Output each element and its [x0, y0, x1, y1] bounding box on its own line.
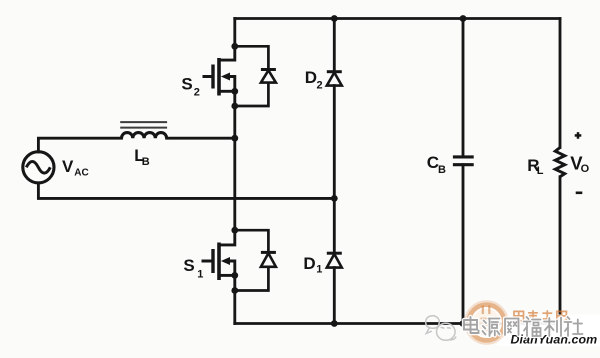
svg-text:O: O — [581, 163, 590, 175]
watermark face icon — [426, 316, 456, 341]
node: bridge midpoint (inductor connection) — [231, 135, 238, 142]
char li — [544, 318, 561, 337]
diode D1 — [327, 253, 342, 267]
watermark white backdrop — [468, 304, 600, 347]
svg-text:S: S — [183, 256, 194, 275]
AC source VAC — [23, 152, 54, 183]
body diode of S1 — [235, 230, 276, 290]
label S2 — [181, 74, 200, 98]
label D2 — [305, 68, 323, 91]
label LB — [134, 147, 150, 168]
node: D-leg top bus junction — [331, 15, 338, 22]
wire: R-leg bottom — [559, 177, 562, 324]
transistor S1 — [202, 230, 235, 290]
label output minus — [576, 192, 583, 195]
label output plus — [575, 132, 582, 139]
svg-text:D: D — [303, 254, 315, 273]
node: S2 loop bottom junction — [231, 103, 238, 110]
wire: R-leg top — [559, 19, 562, 148]
svg-text:2: 2 — [317, 80, 323, 92]
watermark orange ring logo — [465, 301, 507, 343]
transistor S1 body arrow — [221, 257, 230, 265]
inductor LB — [120, 122, 167, 138]
svg-text:1: 1 — [197, 269, 203, 281]
watermark text dian yuan wang fu li she — [464, 317, 583, 336]
wire: bottom bus — [235, 322, 560, 325]
svg-text:AC: AC — [74, 168, 88, 179]
wire: D-leg middle (D2 to D1) — [333, 86, 336, 254]
node: S2 source junction — [231, 88, 238, 95]
node: D-leg bottom bus junction — [331, 320, 338, 327]
wire: top bus — [235, 17, 560, 20]
svg-text:1: 1 — [316, 264, 322, 276]
node: C-leg top bus junction — [460, 15, 467, 22]
node: C-leg bottom bus junction — [460, 320, 467, 327]
label VAC — [62, 157, 89, 179]
diode D2 — [327, 72, 342, 86]
node: S1 loop bottom junction — [231, 287, 238, 294]
char wang — [505, 319, 519, 336]
label S1 — [183, 256, 203, 280]
char yuan — [483, 319, 500, 337]
svg-text:S: S — [181, 74, 192, 93]
body diode of S2 — [235, 46, 276, 106]
wire: AC top terminal to inductor — [38, 138, 121, 152]
transistor S2 — [203, 46, 235, 106]
transistor S2 body arrow — [221, 73, 230, 81]
wire: C-leg top — [462, 19, 465, 157]
watermark logo inner marks — [481, 306, 493, 331]
label D1 — [303, 254, 322, 276]
node: D-leg AC midpoint junction — [331, 195, 338, 202]
wire: D-leg bottom (D1 to bus) — [333, 268, 336, 324]
node: S1 drain junction — [231, 227, 238, 234]
svg-text:2: 2 — [194, 87, 200, 99]
char she — [565, 317, 583, 336]
wire: S-leg middle (S2 loop bottom to S1 loop top) — [233, 106, 236, 230]
wire: AC bottom terminal to D-leg midpoint — [38, 183, 334, 198]
svg-text:B: B — [142, 156, 150, 168]
svg-text:D: D — [305, 68, 317, 87]
wire: S-leg top (bus to S2 loop) — [233, 19, 236, 47]
label CB — [427, 153, 446, 176]
capacitor CB — [453, 157, 474, 165]
label RL — [527, 156, 544, 177]
svg-text:V: V — [62, 157, 74, 176]
watermark orange small text — [514, 310, 566, 321]
resistor RL — [555, 148, 564, 177]
wire: D-leg top (bus to D2) — [333, 19, 336, 72]
node: S2 drain junction — [231, 43, 238, 50]
char fu — [524, 317, 541, 336]
node: S1 source junction — [231, 272, 238, 279]
wire: inductor to S-leg midpoint — [167, 137, 235, 140]
svg-text:L: L — [537, 165, 544, 177]
wire: S-leg bottom (S1 loop bottom to bus) — [233, 291, 236, 324]
wire: C-leg bottom — [462, 165, 465, 324]
char dian — [464, 317, 479, 333]
label VO — [570, 153, 589, 176]
svg-text:B: B — [438, 164, 446, 176]
